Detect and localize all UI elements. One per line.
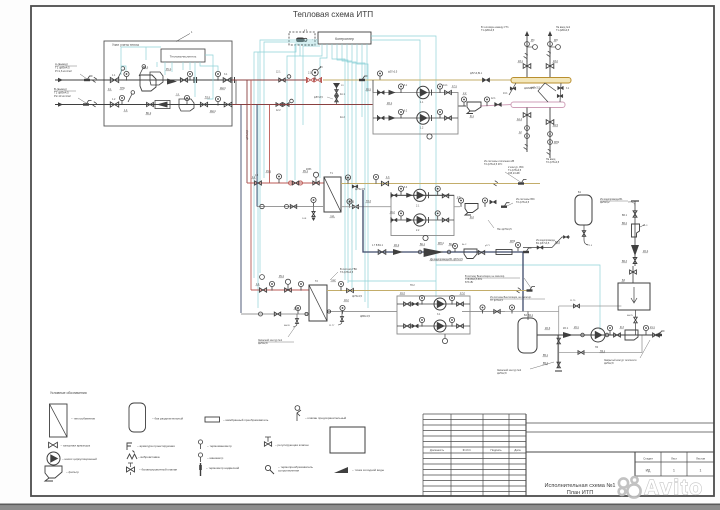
svg-text:План ИТП: План ИТП	[567, 490, 594, 496]
svg-text:КО.1: КО.1	[387, 102, 393, 105]
riser bundle maroon supply drop	[246, 80, 248, 183]
supply tick mark	[87, 76, 93, 80]
city water drop pipe	[634, 201, 636, 266]
pg3 row2 check	[412, 324, 418, 328]
pg3 bottom gauge	[442, 338, 447, 343]
supply pipe T1 through metering unit	[55, 79, 232, 81]
metering unit box	[104, 41, 232, 126]
bypass valve a	[335, 90, 338, 96]
svg-text:– фильтр: – фильтр	[66, 470, 79, 474]
svg-text:– клапан предохранительный: – клапан предохранительный	[305, 416, 347, 420]
pump N3.1	[434, 298, 446, 310]
supply pipe to manifold	[232, 79, 307, 81]
svg-text:15.2: 15.2	[294, 307, 299, 310]
recirc gauge	[607, 325, 612, 330]
svg-text:18.2: 18.2	[344, 299, 349, 302]
svg-text:РС.1: РС.1	[166, 68, 172, 71]
flange pair supply	[193, 77, 195, 83]
svg-text:В1 ф57х3,5: В1 ф57х3,5	[536, 242, 550, 245]
pg3 row2 valve out	[457, 324, 464, 328]
makeup step valve	[563, 235, 568, 238]
hx1 secondary return line	[341, 206, 391, 208]
label leader to cw column	[628, 202, 635, 206]
pg1 row1 flange valve in	[378, 91, 384, 95]
svg-text:873 кВт: 873 кВт	[465, 281, 474, 284]
legend shutoff valve symbol	[49, 442, 58, 447]
recirc tick end	[659, 331, 665, 335]
cw end tick	[526, 248, 532, 252]
riser navy to hx1 return	[256, 105, 258, 207]
svg-text:18.1: 18.1	[349, 200, 354, 203]
filter on return main	[467, 102, 481, 114]
standby2 valve b	[557, 362, 560, 368]
legend safety valve symbol	[295, 406, 301, 421]
hx2 return valve	[274, 312, 280, 316]
dashed link to controller	[312, 39, 318, 41]
recirc valve 3	[653, 333, 660, 337]
pg2 row1 check wedge	[406, 193, 413, 198]
svg-text:– точка холодной воды: – точка холодной воды	[352, 468, 384, 472]
riser1 valve	[523, 64, 531, 69]
svg-text:16.1: 16.1	[366, 88, 371, 91]
svg-text:1: 1	[673, 469, 675, 473]
street riser 2 up	[549, 36, 551, 77]
dhw supply end tick	[530, 287, 536, 291]
svg-text:БК.1: БК.1	[420, 243, 426, 246]
legend projected fitting symbol	[127, 443, 135, 453]
tank outlet pipe	[583, 225, 585, 240]
pg3 row2 valve in	[404, 324, 411, 328]
hx2 port ring left	[305, 312, 308, 315]
pg1 row1 check wedge	[389, 90, 396, 96]
cyan control cable fan from controller	[254, 36, 600, 330]
pg1 row1 gauge right	[437, 84, 442, 89]
hx1 return drain stub	[313, 207, 315, 213]
legend circulation pump symbol	[47, 452, 60, 465]
svg-text:В6.1: В6.1	[622, 214, 628, 217]
supply manifold bar	[511, 78, 571, 84]
sec supply break	[494, 181, 498, 186]
pg1 row2 flange out	[431, 115, 433, 121]
arrow up riser2	[548, 31, 552, 36]
svg-text:– балансировочный клапан: – балансировочный клапан	[139, 468, 178, 472]
flowmeter box return	[155, 101, 170, 109]
pg3 row2 pipe	[397, 325, 470, 327]
svg-text:Т1 ф89х4,5: Т1 ф89х4,5	[556, 29, 570, 32]
pump N1.2	[417, 112, 429, 124]
svg-text:Т8.1: Т8.1	[345, 178, 350, 180]
svg-text:Т2.1: Т2.1	[205, 96, 210, 99]
svg-text:Р2-13 кгс/см²: Р2-13 кгс/см²	[54, 94, 71, 98]
svg-text:20.1: 20.1	[574, 326, 579, 329]
standby2 tick	[555, 370, 562, 372]
cw orifice meter	[496, 250, 512, 255]
svg-text:4А.26: 4А.26	[284, 324, 290, 327]
svg-text:Листов: Листов	[696, 457, 706, 461]
photo edge strip bottom	[0, 504, 720, 510]
recirc gauge 2	[643, 325, 648, 330]
pg3 row1 valve out	[457, 302, 464, 306]
svg-text:ф76х4,5: ф76х4,5	[355, 187, 365, 191]
dhw supply gauge	[338, 281, 343, 286]
hx2 primary return	[241, 313, 309, 315]
tank outlet hook	[584, 240, 589, 245]
svg-text:ВС.1: ВС.1	[143, 66, 149, 69]
svg-text:– вибровставка: – вибровставка	[138, 455, 160, 459]
svg-text:ф76х4,5: ф76х4,5	[352, 294, 362, 298]
svg-text:Условные обозначения: Условные обозначения	[50, 391, 87, 395]
valve on loop bottom	[578, 351, 584, 355]
svg-text:Т8.2: Т8.2	[410, 285, 415, 287]
cyan wiring inside metering unit	[121, 47, 218, 99]
arrow up riser1	[525, 31, 529, 36]
pg1 row2 gauge right	[437, 109, 442, 114]
valve on loop top	[574, 304, 580, 308]
riser2 valve	[546, 64, 554, 69]
pg2 outlet valve	[490, 200, 496, 204]
svg-text:ф25х2,8: ф25х2,8	[258, 342, 268, 345]
pg1 row2 flange valve in	[378, 116, 384, 120]
svg-text:12.2: 12.2	[276, 110, 281, 112]
pump N2.1	[414, 189, 426, 201]
svg-text:В5.1: В5.1	[543, 354, 549, 357]
pg2 row1 gauge	[398, 186, 403, 191]
tag above dashed box	[303, 30, 305, 34]
recirc pump N4	[591, 328, 605, 342]
svg-text:– теплообменник: – теплообменник	[71, 417, 96, 421]
dhw valve	[347, 288, 354, 292]
svg-text:Подпись: Подпись	[490, 448, 502, 452]
controller box Контроллер	[318, 32, 371, 44]
pressure gauge supply	[124, 71, 129, 76]
pg1 row1 valve out	[445, 90, 452, 94]
olive DHW supply from HX2	[327, 290, 528, 292]
drop leg wedge on supply	[333, 83, 340, 89]
pump N2.2	[414, 214, 426, 226]
flow transducer body 2	[150, 72, 163, 85]
cw tapered strainer black	[424, 249, 443, 257]
standby2 valve a	[557, 338, 560, 344]
cwr valve 1	[633, 211, 637, 217]
valve 3.1 supply outlet	[223, 78, 231, 83]
svg-text:– насос циркуляционный: – насос циркуляционный	[62, 457, 97, 461]
cw ring fitting 2	[447, 250, 451, 254]
hx1 right top gauge	[345, 175, 350, 180]
svg-text:Исполнительная схема №1: Исполнительная схема №1	[545, 483, 616, 489]
riser2d break	[547, 149, 551, 154]
pg3 row1 gauge r	[449, 295, 454, 300]
pg1 row1 flange out	[431, 90, 433, 96]
svg-text:13.1: 13.1	[503, 93, 508, 95]
sensor dashed box	[289, 32, 315, 45]
gauge return right	[215, 96, 220, 101]
cw valve after meter	[478, 251, 484, 255]
svg-text:– бак разделительный: – бак разделительный	[152, 417, 183, 421]
cwr water meter box	[632, 224, 640, 237]
hx2 return drain	[296, 314, 298, 319]
hx1 right top valve	[352, 185, 358, 188]
pg2 return tick	[504, 203, 510, 207]
svg-text:МН: МН	[554, 39, 558, 42]
svg-text:Тепловычислитель: Тепловычислитель	[170, 55, 197, 59]
svg-text:Т1 ф89х4,5: Т1 ф89х4,5	[481, 29, 495, 32]
svg-text:ТП ф76х4,5: ТП ф76х4,5	[490, 299, 504, 302]
svg-text:11.75: 11.75	[570, 300, 576, 302]
pg1 row1 gauge	[398, 84, 403, 89]
manifold funnel connection	[538, 83, 556, 102]
grey link rectangle dhw	[505, 306, 642, 368]
svg-text:КЗ.2: КЗ.2	[553, 60, 558, 63]
svg-text:КШ.4: КШ.4	[210, 110, 216, 113]
svg-text:4А.2: 4А.2	[340, 116, 345, 119]
pg2 row2 gauge r	[435, 211, 440, 216]
gauge on supply right	[215, 71, 220, 76]
pump group 1 enclosure	[373, 93, 458, 135]
gauge return 2	[184, 95, 189, 100]
pg1 bottom gauge	[427, 134, 432, 139]
svg-text:КЗ.1: КЗ.1	[518, 60, 523, 63]
metering unit tag leader	[176, 34, 190, 42]
tick on supply main	[362, 76, 368, 80]
open tank feed valve	[632, 266, 634, 283]
hx1 return left fitting	[260, 204, 264, 208]
svg-text:КО.1: КО.1	[563, 327, 569, 330]
vent label leader	[524, 278, 531, 288]
leader to drain	[288, 327, 295, 337]
svg-text:Дата: Дата	[514, 448, 521, 452]
svg-text:15.1: 15.1	[266, 170, 271, 173]
flow transducer body supply	[140, 75, 156, 91]
pg1 row2 valve out	[445, 116, 452, 120]
svg-text:Из водопровода В1 ф57х3,5: Из водопровода В1 ф57х3,5	[430, 258, 463, 261]
svg-text:– арматура проектируемая: – арматура проектируемая	[137, 444, 175, 448]
riser bundle navy return drop	[240, 105, 242, 314]
expansion tank	[575, 195, 592, 225]
svg-text:КО.3: КО.3	[545, 327, 551, 330]
olive secondary supply from HX1	[341, 183, 540, 185]
manometer on supply red cluster	[312, 69, 318, 75]
pg1 feed stub from supply	[372, 80, 374, 93]
pg2 outlet gauge 2	[482, 198, 487, 203]
svg-text:4А.1: 4А.1	[340, 93, 345, 96]
return pipe after pump group	[458, 105, 466, 107]
svg-text:ф25х2,8: ф25х2,8	[497, 372, 507, 375]
svg-text:у171: у171	[485, 245, 491, 247]
svg-text:РК.1: РК.1	[303, 170, 309, 173]
pg3 row2 gauge r	[449, 317, 454, 322]
svg-text:ИД: ИД	[646, 469, 651, 473]
cw valve 1	[378, 250, 386, 255]
riser1 gauge a	[525, 42, 530, 47]
dhw return line grey	[327, 311, 397, 313]
svg-text:Ф.1: Ф.1	[470, 115, 474, 118]
cwr valve 3	[633, 258, 637, 264]
tank outlet valve	[582, 231, 585, 237]
heat calculator box Тепловычислитель	[161, 49, 205, 62]
svg-text:– термоманометр: – термоманометр	[207, 444, 232, 448]
svg-text:– регулирующая клапан: – регулирующая клапан	[275, 443, 309, 447]
svg-text:Avito: Avito	[644, 477, 704, 500]
red supply to HX1	[247, 182, 324, 184]
return riser red 2	[269, 105, 271, 184]
svg-text:– мембранный преобразователь: – мембранный преобразователь	[223, 418, 269, 422]
svg-text:МН2: МН2	[554, 141, 560, 144]
legend control cabinet square	[330, 427, 365, 453]
cw check wedge	[393, 249, 403, 255]
link gauge b	[509, 305, 514, 310]
link valve	[494, 310, 500, 314]
svg-text:ПП1: ПП1	[120, 87, 125, 90]
pg2 outlet gauge	[458, 198, 463, 203]
cw gauge over meter	[452, 243, 457, 248]
pg3 row2 gauge	[419, 317, 424, 322]
gauge after flowmeter	[187, 71, 192, 76]
pg1 row2 check wedge	[389, 115, 396, 121]
svg-text:В1.1: В1.1	[378, 244, 384, 247]
street riser 1 down	[526, 108, 528, 153]
control valve on hx1 supply	[313, 181, 319, 185]
heat exchanger HX2	[309, 285, 327, 321]
return manifold bar	[511, 102, 565, 108]
pink valve on return before manifold	[495, 102, 502, 106]
svg-text:4А.5: 4А.5	[553, 124, 559, 127]
svg-text:14.1: 14.1	[443, 85, 448, 87]
return tick mark	[86, 101, 92, 105]
svg-text:Узел учета тепла: Узел учета тепла	[112, 43, 139, 47]
makeup stub from cold water	[523, 247, 552, 249]
sec supply gauge	[373, 174, 378, 179]
pump N3.2	[434, 320, 446, 332]
thermowell supply	[118, 70, 122, 78]
svg-text:Вс.3: Вс.3	[643, 225, 648, 227]
filter pg2 outlet	[465, 204, 478, 216]
legend manometer symbol	[198, 453, 202, 457]
riser1d gauges	[525, 126, 530, 131]
hx2 right port ring	[327, 310, 330, 313]
sec supply valve	[381, 181, 388, 185]
hx1 return flanged valve	[285, 205, 289, 209]
recirc device box	[625, 330, 638, 340]
svg-text:КШ.3: КШ.3	[220, 87, 226, 90]
svg-text:4А.25: 4А.25	[627, 314, 634, 317]
flow arrow supply	[58, 78, 63, 82]
open tank drop valve	[635, 310, 637, 317]
hx1 right bottom valve	[353, 205, 359, 209]
svg-text:т/о1: т/о1	[330, 215, 335, 218]
svg-text:Т3 ф76х4,5: Т3 ф76х4,5	[340, 271, 354, 274]
flange ticks supply outlet	[231, 77, 233, 83]
pg3 row1 gauge	[419, 295, 424, 300]
svg-text:ф25х2,8: ф25х2,8	[604, 362, 614, 365]
svg-text:Вс.2: Вс.2	[462, 244, 467, 246]
flowmeter wedge return	[157, 102, 168, 108]
pg2 row2 valve out	[442, 218, 448, 222]
valve return mid	[147, 102, 154, 106]
cyan sensor stub left	[260, 275, 265, 280]
open tank square	[618, 283, 650, 310]
svg-text:Р=1,6 кгс/см²: Р=1,6 кгс/см²	[55, 69, 72, 73]
black valve under bar left end	[509, 83, 516, 95]
riser1 gauge b	[533, 45, 538, 50]
standby circuit 2 drop	[557, 335, 559, 368]
cw ring fitting	[418, 250, 422, 254]
flow transducer return	[179, 99, 194, 111]
svg-text:В2.2: В2.2	[555, 241, 561, 244]
legend heat exchanger symbol	[50, 404, 68, 437]
svg-text:1: 1	[700, 469, 702, 473]
legend membrane transducer symbol	[205, 417, 220, 422]
red flange valve pair on supply	[308, 78, 314, 82]
svg-text:МН.4: МН.4	[438, 242, 444, 245]
hx2 supply gauge 2	[298, 281, 303, 286]
hx1 primary return line	[257, 206, 324, 208]
street riser 2 down	[549, 108, 551, 159]
legend cold water point symbol	[334, 467, 348, 473]
svg-text:МН3: МН3	[510, 240, 516, 243]
svg-text:ф57х3,5: ф57х3,5	[314, 96, 324, 99]
svg-text:ВС.3: ВС.3	[449, 243, 455, 246]
cold water main	[363, 190, 523, 312]
riser1 break	[524, 53, 528, 58]
legend resistance transducer symbol	[265, 465, 270, 470]
svg-text:1.7 В: 1.7 В	[372, 245, 378, 247]
dhw return gauge	[340, 305, 345, 310]
return break	[93, 102, 97, 107]
heat exchanger HX1	[324, 177, 341, 212]
red supply to HX2	[251, 289, 309, 291]
cw right top tick	[631, 200, 639, 202]
hx2 supply valve	[259, 288, 266, 292]
legend thermomanometer symbol	[198, 440, 202, 444]
riser1d valve	[523, 113, 531, 118]
svg-text:ф57х3,5: ф57х3,5	[245, 130, 249, 140]
valve return right	[200, 102, 207, 106]
svg-text:Т2 ф76х4,5: Т2 ф76х4,5	[546, 161, 560, 164]
svg-text:4А.4: 4А.4	[517, 118, 523, 121]
svg-text:РИ: РИ	[531, 39, 535, 42]
sec supply tick	[521, 180, 527, 184]
legend vibration insert symbol	[127, 454, 137, 459]
legend balancing valve symbol	[127, 463, 135, 475]
svg-text:12.1: 12.1	[491, 98, 496, 100]
riser bundle red supply drop 2	[250, 80, 252, 290]
zigzag valve pair right of manifolds	[560, 83, 561, 102]
thermowell return	[128, 94, 132, 102]
pg2 row1 pipe	[391, 194, 454, 196]
svg-text:Ф.3: Ф.3	[620, 326, 624, 329]
tank2 top pipe	[527, 312, 529, 321]
pg2 row1 gauge r	[435, 186, 440, 191]
valve 1.1 supply	[110, 77, 118, 82]
link gauge a	[480, 305, 485, 310]
pg2 row2 gauge	[398, 211, 403, 216]
return pipe to pump group	[232, 104, 373, 106]
gauge before filter	[461, 97, 466, 102]
svg-text:ВС.2: ВС.2	[146, 112, 152, 115]
riser2d valve	[546, 120, 554, 125]
hx1 return gauge	[311, 197, 316, 202]
bypass valve b	[335, 96, 338, 102]
pg2 bottom gauge	[423, 235, 428, 240]
svg-text:ф57х3,5: ф57х3,5	[470, 72, 480, 75]
pump N1.1	[417, 86, 429, 98]
svg-text:16.2: 16.2	[390, 211, 395, 214]
pg2 row2 flange out	[428, 217, 430, 223]
svg-text:В6.2: В6.2	[622, 222, 628, 225]
riser2d gauge	[548, 132, 553, 137]
svg-text:В6.3: В6.3	[622, 260, 628, 263]
svg-text:В5.2: В5.2	[543, 362, 549, 365]
